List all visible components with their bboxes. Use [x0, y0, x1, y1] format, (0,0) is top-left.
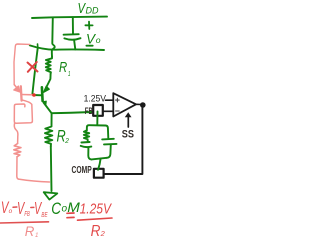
svg-text:o: o [96, 35, 101, 45]
annotation: formula left denominator R1 [25, 223, 39, 239]
capacitor C2 (comp left leg): top plate [81, 141, 89, 144]
svg-text:COMP: COMP [72, 165, 93, 176]
capacitor C1: bottom stub [74, 41, 75, 50]
transistor Q2: emitter diagonal and arrowhead [14, 85, 17, 89]
label COM [51, 200, 81, 218]
capacitor C1: bottom plate [64, 38, 80, 40]
capacitor C2: bottom plate [81, 146, 92, 147]
wire: compensation top rail [87, 125, 109, 138]
capacitor C2: bottom stub [88, 148, 91, 160]
junction dot (red, base node) [32, 93, 36, 97]
wire: Vo- horizontal net [30, 45, 104, 50]
wire: red resistor to COM node [17, 157, 50, 182]
label VDD [78, 0, 99, 17]
svg-text:2: 2 [64, 136, 69, 145]
svg-text:SS: SS [122, 129, 134, 141]
capacitor C1 (output cap): top stub [72, 17, 74, 33]
wire: FB pin down to compensation network [96, 112, 98, 125]
resistor R2 [45, 113, 52, 146]
svg-text:BE: BE [41, 212, 47, 219]
junction: output node dot [140, 102, 146, 108]
X mark (crossed out wire) [28, 62, 38, 72]
annotation: equals sign [67, 213, 74, 218]
svg-text:FB: FB [85, 105, 93, 116]
wire: VDD rail down to R1 with hop over Vo wire [52, 18, 55, 57]
label R1 [59, 60, 71, 78]
op-amp U1 (error comparator) [113, 93, 136, 116]
transistor Q2: collector hook and loop right edge [14, 100, 32, 123]
wire: collector node to FB pin [52, 112, 93, 113]
op-amp - input symbol [116, 110, 120, 112]
wire: 1.25V to op-amp + input [106, 99, 113, 101]
transistor Q1: collector lead [44, 103, 52, 114]
transistor Q1: emitter lead [45, 74, 50, 90]
svg-text:R: R [59, 60, 68, 76]
label + (cap plus) [85, 22, 92, 29]
capacitor C3: bottom stub [107, 145, 111, 158]
svg-text:FB: FB [24, 211, 30, 218]
svg-text:C: C [51, 200, 61, 218]
annotation: formula right denominator R2 [91, 223, 106, 240]
svg-text:1: 1 [35, 232, 39, 239]
transistor Q1: base lead [33, 94, 42, 96]
svg-text:o: o [9, 208, 13, 215]
label - (cap minus) [86, 45, 92, 47]
transistor Q1: collector arrowhead [43, 101, 47, 106]
wire: base vertical (crossed out) [32, 48, 37, 95]
op-amp + input symbol [116, 98, 120, 102]
transistor Q1 green PNP: base bar [41, 87, 44, 101]
resistor R4 (red) [14, 144, 21, 157]
annotation: formula left fraction bar [0, 222, 49, 223]
label R2 [57, 128, 70, 146]
annotation: minus signs [13, 206, 34, 209]
svg-text:R: R [25, 223, 35, 239]
svg-text:R: R [91, 223, 101, 240]
resistor R3 (comp network zigzag) [84, 130, 89, 141]
wire: output down and left to COMP pin [105, 105, 143, 174]
transistor Q2: base lead [22, 94, 33, 96]
annotation: formula right fraction bar [78, 218, 113, 220]
annotation: formula left numerator Vo - VFB - VBE [1, 198, 48, 219]
capacitor C1: top plate [64, 33, 79, 36]
svg-text:1: 1 [68, 71, 71, 78]
pin COMP: box [94, 169, 104, 178]
wire: FB box to op-amp - input [104, 110, 114, 112]
capacitor C3: bottom plate [104, 143, 117, 146]
label Vo [86, 31, 101, 47]
svg-text:1.25V: 1.25V [84, 93, 107, 103]
wire: R2 bottom to COM [50, 146, 53, 191]
transistor Q1: emitter arrowhead [44, 86, 50, 92]
pin FB: box [93, 105, 103, 116]
wire: compensation bottom rail [92, 158, 107, 160]
svg-text:DD: DD [86, 6, 99, 16]
junction tick at base wire T [37, 44, 39, 48]
COM arrow (hollow) [44, 192, 58, 199]
pin SS: arrow [127, 116, 129, 127]
transistor Q2: base bar [20, 86, 23, 100]
transistor Q2 (red): emitter wire [14, 44, 30, 85]
resistor R1 [46, 57, 52, 75]
wire: op-amp output [136, 103, 141, 105]
capacitor C3 (comp right leg): top plate [102, 138, 114, 141]
svg-text:1.25V: 1.25V [80, 202, 112, 218]
wire: VDD rail [32, 17, 107, 18]
wire: compensation to COMP pin [98, 159, 101, 170]
wire: red collector exit [14, 123, 18, 143]
svg-text:2: 2 [100, 229, 106, 238]
